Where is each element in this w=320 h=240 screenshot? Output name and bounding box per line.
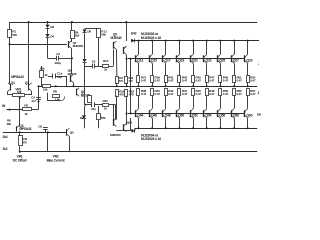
svg-text:0.47: 0.47 [209,92,215,96]
svg-text:0.47: 0.47 [223,79,229,83]
svg-text:0.47: 0.47 [250,79,256,83]
svg-text:D3: D3 [50,25,54,29]
svg-text:0.47: 0.47 [168,79,174,83]
svg-text:560: 560 [12,33,17,37]
svg-text:2k2: 2k2 [75,34,80,38]
svg-text:R13: R13 [103,59,109,63]
svg-text:Q1: Q1 [11,81,15,85]
svg-text:4n7: 4n7 [31,99,36,103]
svg-text:Q15: Q15 [151,59,157,63]
svg-text:Q58: Q58 [233,114,239,118]
svg-text:1k: 1k [104,68,108,72]
svg-text:10k: 10k [43,88,48,92]
svg-text:0.47: 0.47 [182,92,188,96]
svg-text:1.5k: 1.5k [54,97,60,101]
svg-text:D7: D7 [80,116,84,120]
svg-text:0.47: 0.47 [250,92,256,96]
svg-text:220p: 220p [55,61,62,65]
svg-text:0.47: 0.47 [141,79,147,83]
svg-text:Q19: Q19 [178,59,184,63]
svg-text:0.47: 0.47 [182,79,188,83]
svg-text:C8: C8 [38,124,42,128]
svg-text:10p: 10p [57,75,62,79]
svg-text:C6: C6 [92,59,96,63]
svg-text:0.47: 0.47 [236,92,242,96]
svg-text:D42: D42 [131,31,137,35]
svg-text:MJ15025 x 16: MJ15025 x 16 [141,137,161,141]
svg-text:MPSA43: MPSA43 [11,75,24,79]
svg-text:R8: R8 [53,89,57,93]
svg-text:Q46: Q46 [151,114,157,118]
svg-text:2k4: 2k4 [3,135,8,139]
svg-text:D8: D8 [87,30,91,34]
svg-text:Q14: Q14 [127,121,133,125]
svg-text:46k: 46k [6,122,11,126]
svg-text:0.47: 0.47 [141,92,147,96]
svg-text:0.47: 0.47 [155,92,161,96]
svg-text:Q60: Q60 [247,114,253,118]
svg-text:10n: 10n [91,107,96,111]
svg-text:;: ; [258,60,259,65]
svg-text:1k: 1k [44,73,48,77]
svg-text:D4: D4 [50,35,54,39]
svg-text:C4: C4 [56,52,60,56]
svg-text:MJE350: MJE350 [73,44,84,48]
svg-text:Q44: Q44 [137,114,143,118]
svg-text:Q27: Q27 [233,59,239,63]
svg-text:0.47: 0.47 [196,92,202,96]
svg-text:0.47: 0.47 [196,79,202,83]
svg-text:0.47: 0.47 [209,79,215,83]
svg-text:Q48: Q48 [165,114,171,118]
svg-text:30B: 30B [257,113,261,117]
svg-text:Q13: Q13 [137,59,143,63]
svg-text:MJE350: MJE350 [110,133,121,137]
svg-text:0.47: 0.47 [236,79,242,83]
svg-text:Bias Current: Bias Current [47,159,66,163]
svg-text:56k: 56k [101,33,106,37]
svg-text:Q52: Q52 [192,114,198,118]
svg-text:2k2: 2k2 [3,147,8,151]
svg-text:270: 270 [22,141,27,145]
svg-text:MJ15024 x 16: MJ15024 x 16 [141,36,161,40]
svg-text:1k: 1k [104,107,108,111]
svg-text:470: 470 [119,92,124,96]
svg-text:1: 1 [258,91,260,95]
svg-text:470: 470 [129,92,134,96]
svg-text:DC Offset: DC Offset [13,159,28,163]
svg-text:MJE340: MJE340 [111,36,122,40]
svg-text:Q5: Q5 [70,130,74,134]
svg-text:Q29: Q29 [247,59,253,63]
svg-text:0.47: 0.47 [155,79,161,83]
svg-text:56k: 56k [101,116,106,120]
svg-text:Q23: Q23 [206,59,212,63]
svg-text:R2: R2 [24,104,28,108]
svg-text:470: 470 [129,79,134,83]
svg-text:50k: 50k [40,66,45,70]
svg-text:IN: IN [2,104,6,108]
svg-text:Q50: Q50 [178,114,184,118]
svg-text:Q17: Q17 [165,59,171,63]
svg-text:1k: 1k [24,112,28,116]
svg-text:Q25: Q25 [219,59,225,63]
svg-text:Q54: Q54 [206,114,212,118]
svg-text:470: 470 [119,79,124,83]
svg-text:0.47: 0.47 [223,92,229,96]
svg-text:Q21: Q21 [192,59,198,63]
svg-text:0.47: 0.47 [168,92,174,96]
svg-text:R15: R15 [103,99,109,103]
svg-text:Q56: Q56 [219,114,225,118]
svg-text:MPSA43: MPSA43 [19,127,31,131]
